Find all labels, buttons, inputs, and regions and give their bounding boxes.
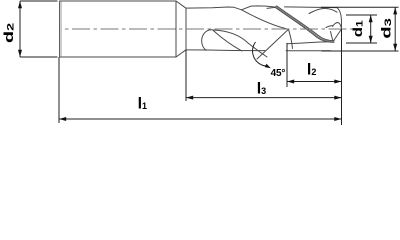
svg-text:l1: l1 bbox=[138, 96, 147, 113]
d2 extension line bottom bbox=[20, 56, 58, 58]
tip beak steep drop bbox=[337, 8, 342, 29]
l2 arrow left bbox=[287, 80, 294, 84]
d3 extension line top bbox=[321, 6, 399, 8]
svg-text:d2: d2 bbox=[2, 23, 16, 43]
l1 arrow left bbox=[59, 117, 66, 121]
centerline bbox=[61, 28, 356, 30]
tip extension line bbox=[341, 29, 343, 125]
d2 arrow up bbox=[18, 1, 22, 8]
svg-text:l2: l2 bbox=[307, 61, 316, 78]
l2 arrow right bbox=[334, 80, 341, 84]
d1 dimension line bbox=[370, 15, 372, 43]
shank-to-neck cone bottom bbox=[176, 50, 186, 57]
tip V left arm bbox=[331, 32, 334, 42]
d1 extension line bottom bbox=[346, 42, 377, 44]
flute valley line near tip bbox=[287, 42, 333, 44]
l3 arrow left bbox=[186, 96, 193, 100]
shank bbox=[60, 1, 176, 57]
shank left edge inner line bbox=[60, 2, 62, 57]
l3 dimension line bbox=[186, 97, 342, 99]
margin curve under OD edge bbox=[309, 8, 337, 13]
tip chisel edge to apex bbox=[333, 29, 342, 42]
d2 extension line top bbox=[20, 0, 58, 2]
flute 1 front edge (steep) bbox=[213, 30, 242, 51]
d3 arrow down bbox=[393, 44, 397, 51]
svg-text:d1: d1 bbox=[351, 20, 365, 37]
cutting edge land upper line bbox=[277, 6, 335, 41]
end mill body outline bbox=[60, 1, 342, 59]
l2 dimension line bbox=[287, 81, 342, 83]
l1 arrow right bbox=[334, 117, 341, 121]
tip inner hook line bbox=[333, 23, 342, 29]
l3 arrow right bbox=[334, 96, 341, 100]
d3 dimension line bbox=[394, 7, 396, 51]
cutting edge land lower line bbox=[275, 7, 334, 42]
flute runout teardrop scoop bbox=[202, 30, 213, 51]
d2 dimension line bbox=[19, 1, 21, 57]
45deg chamfer edge line bbox=[257, 29, 289, 59]
flute 1 back edge curve bbox=[213, 30, 267, 57]
tip inner wave line bbox=[326, 26, 333, 28]
neck + flute top silhouette crest 1 bbox=[186, 6, 276, 10]
OD bottom edge right part bbox=[286, 50, 330, 52]
45deg arc arrowhead bbox=[265, 64, 271, 69]
l1 extension line left bbox=[58, 57, 60, 123]
d1 arrow up bbox=[369, 15, 373, 22]
45deg leader arc bbox=[253, 42, 266, 66]
shank-to-neck cone top bbox=[176, 1, 186, 8]
l1 dimension line bbox=[59, 118, 342, 120]
neck + flute bottom silhouette left part bbox=[186, 49, 265, 52]
l2 extension line left bbox=[286, 43, 288, 87]
l3 extension line left bbox=[185, 50, 187, 101]
d2 arrow down bbox=[18, 50, 22, 57]
svg-text:l3: l3 bbox=[257, 81, 266, 98]
d1 arrow down bbox=[369, 36, 373, 43]
cutting edge land hatch texture bbox=[276, 7, 334, 42]
d1 extension line top bbox=[346, 14, 377, 16]
cutting wedge line under crest bbox=[267, 7, 276, 8]
svg-text:45°: 45° bbox=[271, 68, 286, 79]
cone end face bbox=[185, 8, 187, 50]
OD top edge segment to tip bbox=[285, 6, 338, 9]
flute 2 trailing edge to bottom bbox=[289, 29, 293, 48]
d3 arrow up bbox=[393, 7, 397, 14]
flute 2 helix diagonal upper bbox=[242, 10, 289, 30]
d3 extension line bottom bbox=[322, 50, 399, 52]
svg-text:d3: d3 bbox=[379, 18, 393, 39]
